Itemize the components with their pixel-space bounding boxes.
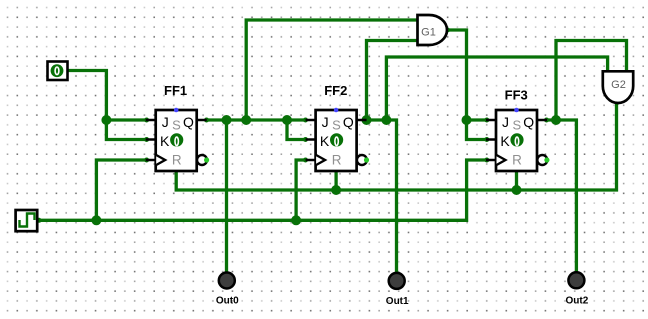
wire: Q2 up to G2 left input [386,57,607,120]
output node Out2 [566,272,589,306]
FF2 state value circle [330,133,343,146]
svg-text:S: S [172,118,181,133]
svg-text:Out2: Out2 [566,295,589,306]
svg-text:J: J [322,114,329,130]
node: Q2-G1 junction [362,115,372,125]
wire: FF2 CLK branch [296,160,305,220]
pin tip: IN output [64,68,69,73]
output node Out0 [216,273,239,307]
FF3 Qbar bubble [537,155,547,165]
FF2 Qbar tip (lime) [364,157,369,162]
FF1 clock triangle [156,155,165,165]
FF1 preset node (blue) [174,108,179,113]
svg-text:R: R [512,152,522,167]
FF2 preset node (blue) [334,108,339,113]
svg-text:G2: G2 [611,79,626,91]
pin tip: FF2 J [303,118,308,123]
svg-text:FF1: FF1 [164,83,187,98]
node: Q1-Out0 junction [222,115,232,125]
wire: Q2 up to G1 lower input [367,41,418,121]
FF1 Qbar bubble [197,155,207,165]
pin tip: FF3 CLK [484,158,489,163]
wire: input IN to FF1 J pin [67,71,147,121]
pin tip: FF3 J [484,118,489,123]
pin tip: G2 output [615,100,620,105]
svg-text:Out1: Out1 [386,296,409,307]
pin tip: FF1 J [144,118,149,123]
pin tip: FF2 CLK [303,158,308,163]
FF1 body [156,110,197,171]
wire: clock bus to FF3 CLK [37,160,487,220]
svg-text:FF3: FF3 [505,88,528,103]
wire: Q1 up to G1 upper input [246,20,417,120]
FF2 pin stubs [306,120,367,160]
wire: FF1 J-to-K drop [106,120,146,140]
flip-flop FF3 (JK) [486,88,550,172]
node: FF3 J junction [462,115,472,125]
node: Q3-G2 junction [551,115,561,125]
FF3 state value circle [510,133,523,146]
pin tip: FF3 Q [544,118,549,123]
FF3 preset node (blue) [514,108,519,113]
node: Q1-G1 junction [241,115,251,125]
node: Q2-G2 junction [381,115,391,125]
svg-text:Q: Q [523,114,534,130]
pin tip: clock output [37,218,42,223]
wire: G1 output to FF3 J [447,30,487,120]
wire: Q3 up to G2 right input [556,41,627,121]
wire: FF1 CLK branch [96,160,146,220]
output node Out1 [386,273,409,307]
FF3 pin stubs [486,120,547,160]
svg-text:J: J [502,114,509,130]
svg-text:R: R [172,152,182,167]
node: clock-FF2 junction [291,215,301,225]
FF1 Qbar tip (lime) [204,157,209,162]
node: reset-FF2 junction [331,185,341,195]
svg-text:K: K [500,133,510,149]
wire: Q1 down to Out0 [225,120,228,272]
pin tip: G1 output [445,28,450,33]
wire: FF3 R drop [515,171,518,191]
svg-text:J: J [162,114,169,130]
svg-text:G1: G1 [421,27,436,39]
FF2 Qbar bubble [357,155,367,165]
FF3 clock triangle [497,155,506,165]
svg-text:S: S [512,118,521,133]
pin tip: FF1 CLK [144,158,149,163]
FF2 clock triangle [316,155,325,165]
node: IN/J1 junction [101,115,111,125]
svg-text:R: R [332,152,342,167]
wire: reset bus FF1 R to G2 output [176,103,616,190]
clock source CLK [16,210,38,231]
input source IN (constant 0) [48,62,68,81]
svg-text:S: S [332,118,341,133]
FF3 Qbar tip (lime) [544,157,549,162]
node: clock-FF1 junction [91,215,101,225]
wire: FF3 Q to Out2 [547,120,577,272]
FF3 body [496,110,537,171]
wire: FF3 J-to-K drop [467,120,487,140]
svg-text:K: K [320,133,330,149]
wire: FF2 Q to Out1 [367,120,397,272]
pin tip: FF2 K [303,137,308,142]
wire: FF2 J-to-K drop [287,120,306,140]
pin tip: FF1 Q [204,118,209,123]
svg-text:Q: Q [343,114,354,130]
pin tip: FF1 K [144,137,149,142]
AND gate G2 (rotated, output down) [603,71,633,103]
FF2 body [316,110,357,171]
node: reset-FF3 junction [512,185,522,195]
wire: FF2 R drop [334,171,337,191]
svg-text:Out0: Out0 [216,296,239,307]
svg-text:Q: Q [183,114,194,130]
FF1 pin stubs [146,120,207,160]
pin tip: FF3 K [484,137,489,142]
svg-text:K: K [160,133,170,149]
flip-flop FF1 (JK) [146,83,210,171]
node: FF2 J junction [282,115,292,125]
svg-text:FF2: FF2 [324,83,347,98]
FF1 state value circle [170,133,183,146]
AND gate G1 [418,15,448,45]
flip-flop FF2 (JK) [306,83,370,171]
wire: FF1 Q to FF2 J [207,118,306,121]
